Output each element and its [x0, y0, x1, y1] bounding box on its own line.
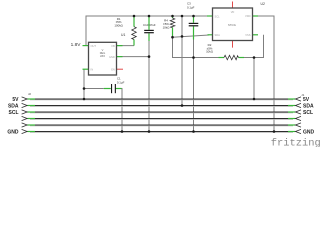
svg-text:1.8V: 1.8V [71, 42, 82, 48]
svg-text:10kΩ: 10kΩ [163, 26, 171, 30]
svg-text:LBO: LBO [100, 54, 105, 58]
svg-text:U1: U1 [121, 33, 125, 37]
svg-text:fritzing: fritzing [271, 138, 320, 147]
svg-text:GND: GND [109, 55, 115, 59]
svg-text:STC3x: STC3x [228, 23, 237, 27]
svg-text:10kΩ: 10kΩ [206, 50, 214, 54]
svg-text:SDA: SDA [215, 33, 221, 37]
svg-text:VDD: VDD [245, 14, 251, 18]
svg-text:FB: FB [111, 44, 115, 48]
svg-text:J1: J1 [301, 93, 304, 97]
svg-text:OUT: OUT [91, 44, 97, 48]
svg-text:SCL: SCL [9, 110, 19, 116]
svg-text:SDA: SDA [303, 103, 314, 109]
svg-text:VSS: VSS [245, 33, 250, 37]
svg-text:IN: IN [91, 67, 94, 71]
svg-text:U2: U2 [261, 2, 265, 6]
svg-text:5V: 5V [303, 97, 310, 103]
svg-text:0.1µF: 0.1µF [117, 80, 125, 84]
svg-text:GND: GND [7, 129, 19, 135]
svg-text:SDA: SDA [8, 103, 19, 109]
svg-text:0.1µF: 0.1µF [187, 5, 195, 9]
svg-text:5V: 5V [12, 97, 19, 103]
svg-text:100kΩ: 100kΩ [114, 24, 123, 28]
svg-text:C10 47uF: C10 47uF [143, 23, 156, 27]
svg-text:GND: GND [303, 129, 315, 135]
svg-text:SCL: SCL [215, 14, 221, 18]
svg-text:EN: EN [111, 67, 115, 71]
svg-text:J2: J2 [28, 92, 31, 96]
svg-text:SCL: SCL [303, 110, 313, 116]
svg-text:VD: VD [231, 10, 235, 14]
